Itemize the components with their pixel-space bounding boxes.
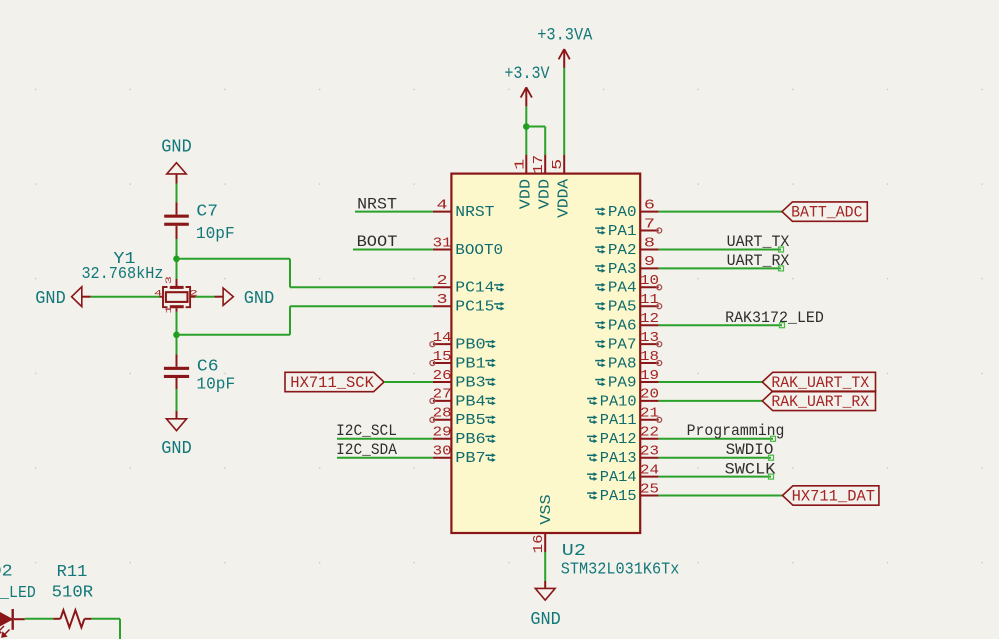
wire Y1 pin4 to GND xyxy=(91,296,160,298)
pin 31 BOOT0 xyxy=(433,249,452,251)
svg-text:PA14: PA14 xyxy=(600,470,637,486)
wire PA6 xyxy=(659,324,782,326)
svg-text:SWCLK: SWCLK xyxy=(725,460,776,478)
ground GND (below C6) xyxy=(176,411,178,419)
svg-text:PA6: PA6 xyxy=(608,319,637,335)
svg-text:2: 2 xyxy=(437,274,448,289)
svg-text:HX711_SCK: HX711_SCK xyxy=(290,374,374,392)
capacitor C7 10pF xyxy=(176,202,178,214)
wire +3.3V to VDD pin1 xyxy=(525,106,527,154)
svg-text:23: 23 xyxy=(640,445,659,460)
svg-text:10pF: 10pF xyxy=(196,376,235,395)
svg-text:PA13: PA13 xyxy=(600,451,637,467)
svg-text:+3.3VA: +3.3VA xyxy=(537,25,593,45)
svg-text:STM32L031K6Tx: STM32L031K6Tx xyxy=(561,561,680,580)
svg-text:PB4: PB4 xyxy=(455,394,485,410)
pin 30 PB7 xyxy=(433,457,452,459)
global label BATT_ADC xyxy=(782,202,867,221)
pin 5 VDDA xyxy=(563,155,565,174)
wire Y1 pin2 to GND xyxy=(196,296,215,298)
svg-text:PA11: PA11 xyxy=(600,413,637,429)
pin 2 PC14 xyxy=(433,286,452,288)
wire PA2 xyxy=(659,249,781,251)
svg-text:RAK_UART_TX: RAK_UART_TX xyxy=(771,374,869,392)
svg-text:1: 1 xyxy=(164,306,174,314)
svg-text:PA10: PA10 xyxy=(600,394,637,410)
wire XTAL1 to PC14 xyxy=(177,258,291,260)
svg-text:1: 1 xyxy=(513,159,528,170)
svg-text:17: 17 xyxy=(532,155,547,174)
svg-text:C6: C6 xyxy=(197,358,219,377)
svg-text:PA3: PA3 xyxy=(608,262,637,278)
svg-text:PA2: PA2 xyxy=(608,243,637,259)
svg-text:PB3: PB3 xyxy=(455,375,485,391)
svg-text:RAK_UART_RX: RAK_UART_RX xyxy=(771,393,869,411)
svg-text:PC14: PC14 xyxy=(455,281,494,297)
pin 6 PA0 xyxy=(640,211,659,213)
wire VSS to GND xyxy=(544,552,546,581)
svg-text:32.768kHz: 32.768kHz xyxy=(81,265,163,284)
power +3.3V xyxy=(525,87,527,106)
wire PA9 to RAK_UART_TX xyxy=(659,381,763,383)
svg-text:PB7: PB7 xyxy=(455,451,485,467)
svg-text:GND: GND xyxy=(161,138,191,158)
wire I2C_SDA xyxy=(337,457,433,459)
pin 22 PA12 xyxy=(640,438,659,440)
svg-text:PA5: PA5 xyxy=(608,300,637,316)
svg-text:4: 4 xyxy=(437,198,448,213)
svg-text:PA0: PA0 xyxy=(608,205,637,221)
pin 20 PA10 xyxy=(640,400,659,402)
wire Y1 to C6 xyxy=(176,312,178,355)
svg-text:9: 9 xyxy=(644,255,655,270)
svg-text:PC15: PC15 xyxy=(455,300,494,316)
pin 24 PA14 xyxy=(640,476,659,478)
pin 12 PA6 xyxy=(640,324,659,326)
svg-text:PA15: PA15 xyxy=(600,489,637,505)
svg-text:D2: D2 xyxy=(0,563,13,582)
svg-text:25: 25 xyxy=(640,482,659,497)
svg-text:8: 8 xyxy=(644,236,655,251)
global label HX711_DAT xyxy=(783,486,879,505)
pin 14 PB0 xyxy=(433,343,452,345)
wire XTAL2 to PC15 xyxy=(177,334,291,336)
svg-text:PB0: PB0 xyxy=(455,338,485,354)
svg-text:10pF: 10pF xyxy=(196,225,235,244)
global label RAK_UART_TX xyxy=(762,372,875,391)
wire junction to pin17 xyxy=(526,126,545,128)
svg-text:VSS: VSS xyxy=(539,494,555,524)
pin 28 PB5 xyxy=(433,419,452,421)
svg-text:UART_RX: UART_RX xyxy=(727,252,790,270)
junction node XTAL1 xyxy=(173,255,180,262)
svg-text:30: 30 xyxy=(433,445,452,460)
pin 3 PC15 xyxy=(433,305,452,307)
wire GND to C7 xyxy=(176,184,178,203)
ic U2 STM32L031K6Tx xyxy=(451,174,640,533)
pin 11 PA5 xyxy=(640,305,659,307)
svg-text:19: 19 xyxy=(640,369,659,384)
wire PA14 xyxy=(659,476,771,478)
svg-text:U2: U2 xyxy=(562,542,586,561)
svg-text:PA4: PA4 xyxy=(608,281,637,297)
pin 16 VSS xyxy=(544,533,546,552)
svg-text:Programming: Programming xyxy=(687,422,785,440)
pin 8 PA2 xyxy=(640,249,659,251)
svg-text:BATT_ADC: BATT_ADC xyxy=(791,204,862,222)
svg-text:6: 6 xyxy=(644,198,655,213)
wire +3.3VA to VDDA pin5 xyxy=(563,68,565,155)
pin 21 PA11 xyxy=(640,419,659,421)
pin 1 VDD xyxy=(525,155,527,174)
svg-text:PA7: PA7 xyxy=(608,338,637,354)
wire PA3 xyxy=(659,267,781,269)
global label HX711_SCK xyxy=(285,372,384,391)
wire NRST xyxy=(355,211,433,213)
wire C7 to Y1 xyxy=(176,239,178,279)
svg-text:SWDIO: SWDIO xyxy=(726,441,774,459)
pin 17 VDD xyxy=(544,155,546,174)
svg-text:HX711_DAT: HX711_DAT xyxy=(792,488,875,506)
junction VDD xyxy=(523,123,530,130)
wire HX711_SCK to PB3 xyxy=(384,381,433,383)
svg-text:VDDA: VDDA xyxy=(556,178,572,218)
capacitor C6 10pF xyxy=(176,355,178,367)
pin 13 PA7 xyxy=(640,343,659,345)
svg-text:29: 29 xyxy=(433,426,452,441)
wire R11 to edge xyxy=(91,618,120,620)
svg-text:24: 24 xyxy=(640,463,659,478)
global label RAK_UART_RX xyxy=(762,391,875,410)
pin 4 NRST xyxy=(433,211,452,213)
pin 18 PA8 xyxy=(640,362,659,364)
svg-text:VDD: VDD xyxy=(537,179,553,209)
svg-text:PB6: PB6 xyxy=(455,432,485,448)
svg-text:5: 5 xyxy=(551,159,566,170)
wire PA13 xyxy=(659,457,771,459)
svg-text:510R: 510R xyxy=(52,584,94,603)
svg-text:I2C_SDA: I2C_SDA xyxy=(336,441,397,459)
pin 26 PB3 xyxy=(433,381,452,383)
svg-text:PA9: PA9 xyxy=(608,375,637,391)
svg-text:R11: R11 xyxy=(57,563,88,582)
svg-text:3: 3 xyxy=(164,276,174,284)
svg-text:PA12: PA12 xyxy=(600,432,637,448)
svg-text:GND: GND xyxy=(35,289,65,309)
wire PA15 to HX711_DAT xyxy=(659,495,783,497)
pin 9 PA3 xyxy=(640,267,659,269)
pin 7 PA1 xyxy=(640,230,659,232)
pin 23 PA13 xyxy=(640,457,659,459)
wire C6 to GND xyxy=(176,389,178,411)
svg-text:31: 31 xyxy=(433,236,452,251)
ground GND (below U2) xyxy=(544,581,546,588)
wire D2 to R11 xyxy=(25,618,54,620)
svg-text:UART_TX: UART_TX xyxy=(727,233,790,251)
svg-text:GND: GND xyxy=(244,289,274,309)
wire BOOT xyxy=(353,249,433,251)
svg-text:NRST: NRST xyxy=(455,205,495,221)
svg-text:3: 3 xyxy=(437,293,448,308)
svg-text:I2C_SCL: I2C_SCL xyxy=(336,422,397,440)
svg-text:+3.3V: +3.3V xyxy=(504,64,550,84)
pin 10 PA4 xyxy=(640,286,659,288)
svg-text:BOOT0: BOOT0 xyxy=(455,243,503,259)
svg-text:PA8: PA8 xyxy=(608,356,637,372)
svg-text:PB1: PB1 xyxy=(455,356,485,372)
svg-text:22: 22 xyxy=(640,426,659,441)
svg-text:C7: C7 xyxy=(196,203,218,222)
pin 29 PB6 xyxy=(433,438,452,440)
pin 25 PA15 xyxy=(640,495,659,497)
svg-text:RAK3172_LED: RAK3172_LED xyxy=(725,309,824,327)
svg-text:RAK3172_LED: RAK3172_LED xyxy=(0,584,36,603)
pin 15 PB1 xyxy=(433,362,452,364)
wire PA10 to RAK_UART_RX xyxy=(659,400,763,402)
wire PA12 xyxy=(659,438,773,440)
wire PA0 to BATT_ADC xyxy=(659,211,782,213)
svg-text:26: 26 xyxy=(433,369,452,384)
junction node XTAL2 xyxy=(173,332,180,339)
svg-text:12: 12 xyxy=(640,312,659,327)
svg-text:PB5: PB5 xyxy=(455,413,485,429)
svg-text:20: 20 xyxy=(640,388,659,403)
svg-text:GND: GND xyxy=(530,610,560,630)
wire I2C_SCL xyxy=(337,438,433,440)
power +3.3VA xyxy=(563,49,565,68)
pin 19 PA9 xyxy=(640,381,659,383)
svg-text:16: 16 xyxy=(532,534,547,553)
pin 27 PB4 xyxy=(433,400,452,402)
svg-text:7: 7 xyxy=(644,217,655,232)
svg-text:PA1: PA1 xyxy=(608,224,637,240)
svg-text:VDD: VDD xyxy=(519,179,535,209)
svg-text:GND: GND xyxy=(161,439,191,459)
